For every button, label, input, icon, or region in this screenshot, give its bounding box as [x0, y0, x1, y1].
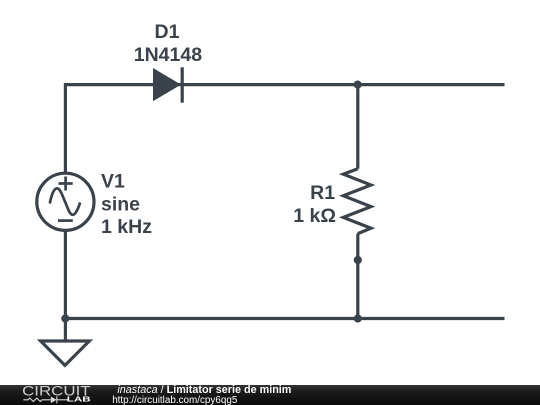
- svg-text:sine: sine: [101, 194, 140, 216]
- svg-text:1N4148: 1N4148: [134, 44, 202, 66]
- svg-text:1 kHz: 1 kHz: [101, 216, 152, 238]
- svg-text:http://circuitlab.com/cpy6qg5: http://circuitlab.com/cpy6qg5: [112, 395, 238, 405]
- svg-text:V1: V1: [101, 170, 125, 192]
- svg-text:1 kΩ: 1 kΩ: [293, 205, 336, 227]
- svg-text:R1: R1: [310, 182, 335, 204]
- svg-text:LAB: LAB: [67, 395, 92, 404]
- svg-text:D1: D1: [155, 21, 180, 43]
